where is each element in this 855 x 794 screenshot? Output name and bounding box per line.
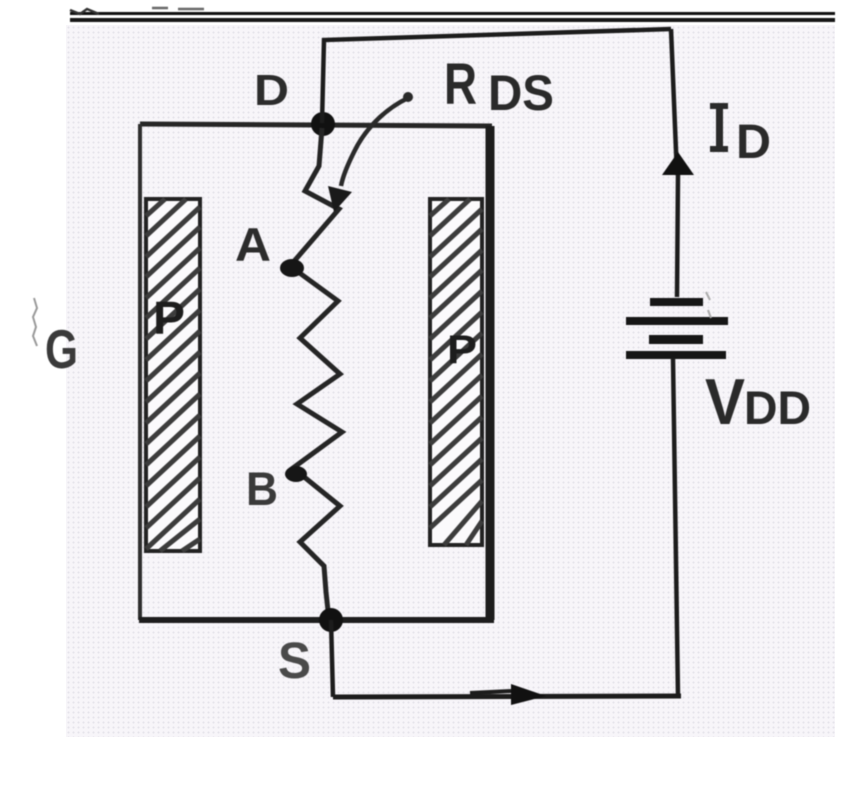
label P (left gate) xyxy=(153,292,185,344)
node S junction dot xyxy=(319,608,343,632)
node B junction dot xyxy=(285,466,307,482)
svg-text:D: D xyxy=(254,66,289,115)
wire from S node down xyxy=(331,620,333,697)
svg-text:P: P xyxy=(447,328,477,372)
terminal label G xyxy=(33,298,78,380)
label A xyxy=(235,218,271,271)
svg-text:B: B xyxy=(246,462,278,515)
wire right side top (battery positive lead) xyxy=(671,29,678,297)
svg-text:S: S xyxy=(278,632,311,689)
P-region gate right (hatched) xyxy=(430,199,482,545)
svg-text:A: A xyxy=(235,218,271,271)
node A junction dot xyxy=(280,259,304,277)
label B xyxy=(246,462,278,515)
wire right side bottom (battery negative lead) xyxy=(673,358,678,697)
P-region gate left (hatched) xyxy=(146,199,200,551)
label VDD xyxy=(705,365,811,438)
svg-text:P: P xyxy=(153,292,185,344)
label RDS xyxy=(444,52,554,121)
svg-text:DD: DD xyxy=(744,381,811,434)
label P (right gate) xyxy=(447,328,477,372)
JFET channel body outline xyxy=(139,124,494,620)
arrow from RDS label to resistor xyxy=(328,92,413,212)
top double rule line xyxy=(70,8,835,22)
svg-text:R: R xyxy=(444,52,477,117)
wire from D up and right to battery top xyxy=(322,29,671,123)
resistor RDS zigzag xyxy=(290,128,342,620)
terminal label D (drain) xyxy=(254,66,289,115)
svg-text:V: V xyxy=(705,365,745,438)
label S xyxy=(278,632,311,689)
node D junction dot xyxy=(311,112,335,136)
wire bottom (S to battery) xyxy=(333,696,681,697)
svg-text:D: D xyxy=(736,116,771,169)
label ID xyxy=(710,103,771,169)
battery VDD symbol xyxy=(626,292,728,359)
svg-text:DS: DS xyxy=(488,65,554,121)
arrow on bottom wire (pointing right) xyxy=(470,684,546,705)
svg-text:G: G xyxy=(45,318,78,380)
current arrow ID (pointing up) xyxy=(662,152,694,175)
